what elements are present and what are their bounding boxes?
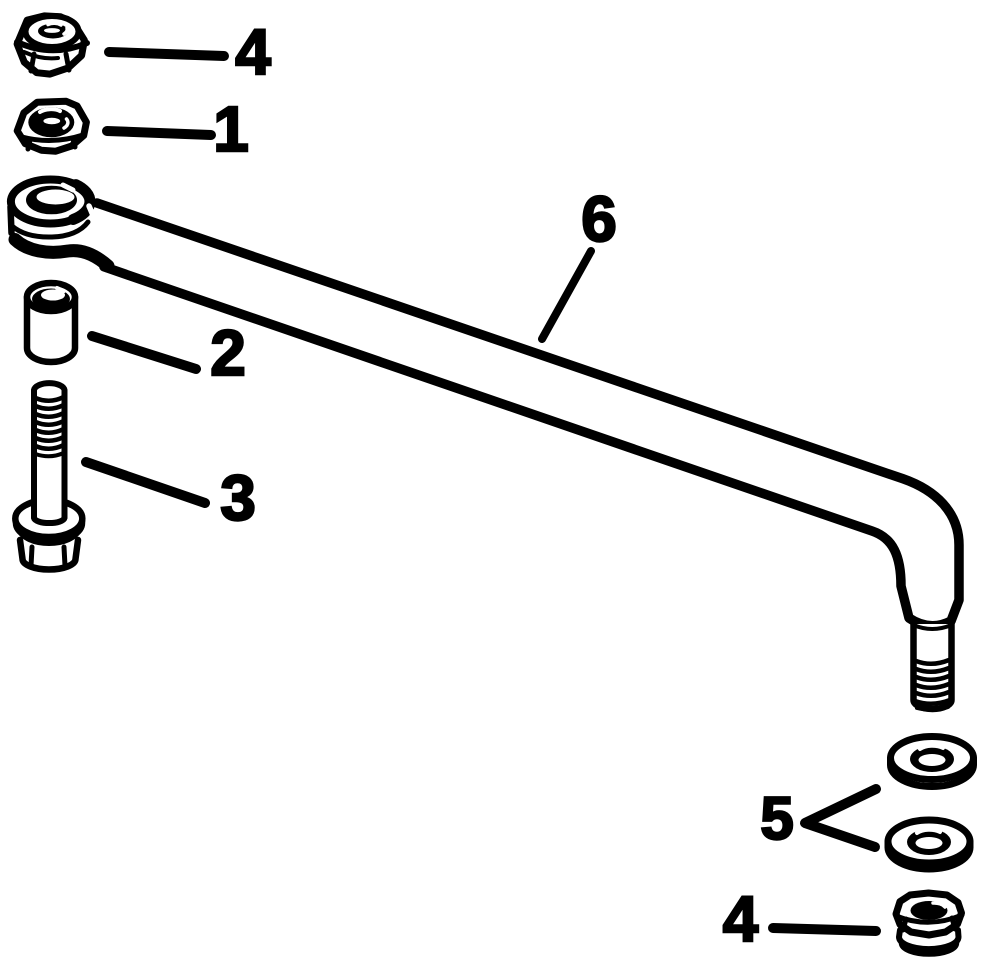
part 3 flange bolt [15, 383, 82, 569]
part 1 hex nut [17, 101, 86, 151]
leader line 4 (top) [109, 52, 224, 56]
part 2 spacer bushing [27, 283, 75, 362]
leader bracket 5 [805, 789, 876, 847]
svg-text:4: 4 [723, 883, 759, 955]
svg-text:4: 4 [235, 16, 271, 88]
leader line 2 [92, 336, 196, 369]
part 5 washer (lower) [888, 820, 970, 869]
part 4 lock nut (top) [17, 16, 87, 74]
svg-text:2: 2 [210, 317, 246, 389]
rod eye end [11, 207, 12, 233]
part 6 link rod [11, 180, 960, 710]
leader line 4 (bottom) [773, 928, 876, 931]
part 5 washer (upper) [891, 737, 974, 787]
rod threaded stud [914, 624, 952, 709]
svg-text:1: 1 [213, 93, 249, 165]
svg-text:3: 3 [220, 462, 256, 534]
leader line 1 [107, 131, 211, 135]
leader line 6 [542, 251, 591, 339]
svg-text:5: 5 [760, 785, 793, 852]
part 4 flange nut (bottom) [896, 893, 962, 954]
leader line 3 [86, 462, 205, 503]
svg-text:6: 6 [581, 183, 617, 255]
